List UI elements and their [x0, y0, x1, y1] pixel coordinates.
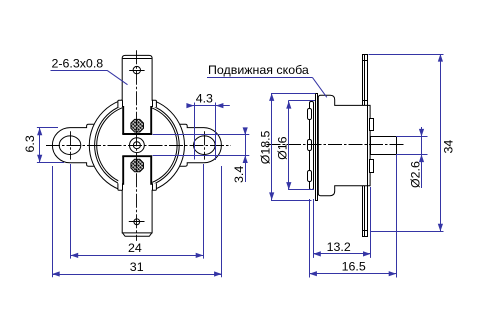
svg-text:34: 34	[442, 140, 456, 154]
svg-text:Подвижная скоба: Подвижная скоба	[208, 63, 309, 77]
svg-text:16.5: 16.5	[342, 260, 366, 274]
svg-text:3.4: 3.4	[232, 166, 246, 183]
svg-text:4.3: 4.3	[196, 91, 213, 105]
svg-text:6.3: 6.3	[23, 135, 37, 152]
svg-text:Ø18.5: Ø18.5	[258, 130, 272, 164]
svg-text:Ø16: Ø16	[276, 136, 290, 160]
svg-text:31: 31	[130, 260, 144, 274]
svg-text:Ø2.6: Ø2.6	[408, 161, 422, 188]
svg-text:13.2: 13.2	[327, 240, 351, 254]
svg-text:24: 24	[128, 241, 142, 255]
svg-text:2-6.3x0.8: 2-6.3x0.8	[52, 56, 104, 70]
